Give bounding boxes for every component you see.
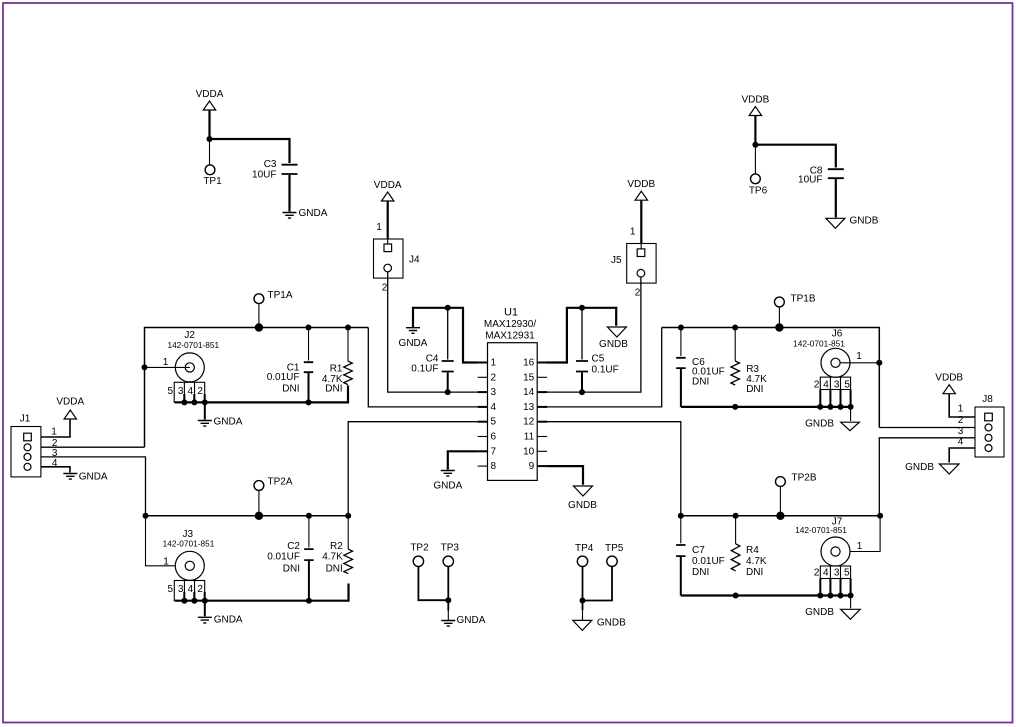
node J7 shield node d: [848, 593, 854, 599]
node J2 pin 1 tap: [142, 364, 148, 370]
connector J3 SMA body: [175, 551, 204, 580]
svg-text:4: 4: [188, 386, 194, 397]
node J7 shield node b: [827, 593, 833, 599]
wire J7 shield stubs: [820, 579, 850, 596]
svg-text:VDDA: VDDA: [56, 397, 84, 408]
wire TP2A stub: [258, 490, 260, 516]
wire GNDA rail to U1 pin 1: [413, 308, 478, 363]
node J2 shield node 2: [202, 399, 208, 405]
U1 pin 2 stub: [478, 376, 488, 378]
wire U1 pin 5 to channel A2 bus: [348, 422, 477, 516]
wire channel B bus: [662, 328, 880, 428]
ground GNDA (at J1 pin 4): [63, 471, 108, 482]
svg-text:GNDB: GNDB: [905, 462, 934, 473]
U1 pin 10 stub: [537, 450, 547, 452]
svg-text:0.01UF: 0.01UF: [692, 556, 725, 567]
svg-text:2: 2: [814, 567, 820, 578]
svg-text:J1: J1: [20, 414, 31, 425]
U1 pin 12 stub: [537, 421, 547, 423]
wire J1 pin 2 to channel A bus: [41, 446, 145, 448]
U1 pin 5 stub: [478, 421, 488, 423]
node J6 shield node d: [848, 404, 854, 410]
power symbol VDDA (J1 supply flag): [56, 397, 84, 419]
connector J5: [611, 244, 656, 299]
test point TP1B: [775, 293, 816, 307]
wire J5 pin 1 entry: [640, 244, 642, 250]
wire C2 bottom lead: [308, 561, 310, 601]
test point TP5: [605, 543, 624, 566]
node R3 bottom node: [732, 404, 738, 410]
wire C8 to GNDB: [835, 179, 837, 218]
svg-text:3: 3: [834, 380, 840, 391]
svg-text:2: 2: [491, 372, 497, 383]
svg-text:TP3: TP3: [441, 543, 460, 554]
svg-text:5: 5: [168, 584, 174, 595]
svg-text:7: 7: [491, 446, 497, 457]
wire channel B ground rail: [681, 406, 850, 408]
wire J8 pin 3 to channel B2 bus: [879, 438, 975, 516]
svg-text:10: 10: [523, 446, 535, 457]
svg-text:GNDA: GNDA: [433, 481, 462, 492]
svg-text:TP2A: TP2A: [268, 477, 293, 488]
resistor R2: [322, 541, 352, 575]
resistor R3: [731, 361, 767, 395]
U1 pin 4 stub: [478, 406, 488, 408]
node J8 pin3-J7 junction: [877, 513, 883, 519]
wire TP1 stub: [209, 139, 211, 165]
node C7 top node: [678, 513, 684, 519]
wire VDDB flag to node: [754, 116, 756, 145]
wire C6 top lead: [680, 328, 682, 357]
connector J8: [958, 404, 1004, 458]
svg-text:TP2: TP2: [410, 543, 429, 554]
node C5 top node: [579, 305, 585, 311]
power symbol VDDB (J5 supply flag): [627, 179, 655, 200]
ground GNDB (under J7): [805, 607, 860, 620]
svg-text:GNDA: GNDA: [79, 471, 108, 482]
ground GNDB (right of C5): [599, 327, 628, 350]
wire J1 pin 1 to VDDA: [41, 420, 70, 437]
wire VDDB flag to J5 pin 1: [640, 200, 642, 243]
svg-text:2: 2: [635, 288, 641, 299]
wire U1 pin 9 to GNDB: [547, 466, 583, 485]
svg-text:R4: R4: [746, 545, 759, 556]
svg-text:142-0701-851: 142-0701-851: [167, 340, 219, 350]
wire TP1B stub: [778, 307, 780, 328]
wire J6 shield stubs: [820, 390, 850, 407]
svg-text:TP1A: TP1A: [268, 290, 293, 301]
svg-text:1: 1: [856, 351, 862, 362]
wire C1 bottom lead: [308, 373, 310, 402]
wire J3 pin 1 riser: [146, 516, 190, 566]
connector J6 SMA body: [821, 348, 850, 377]
wire J8 pin 2 line: [879, 427, 975, 429]
resistor R4: [731, 544, 767, 578]
node TP2-TP3 junction: [445, 597, 451, 603]
svg-text:GNDB: GNDB: [805, 419, 834, 430]
node J2 shield node 3: [181, 399, 187, 405]
svg-text:0.01UF: 0.01UF: [267, 372, 300, 383]
node J6 pin 1 tap: [876, 360, 882, 366]
U1 pin 15 stub: [537, 376, 547, 378]
svg-text:4: 4: [823, 567, 829, 578]
svg-text:5: 5: [491, 417, 497, 428]
node C2 top node: [306, 513, 312, 519]
svg-text:13: 13: [523, 402, 535, 413]
svg-text:DNI: DNI: [692, 377, 709, 388]
svg-text:J5: J5: [611, 255, 622, 266]
svg-text:4.7K: 4.7K: [322, 551, 343, 562]
svg-text:DNI: DNI: [283, 564, 300, 575]
capacitor C7: [676, 545, 725, 578]
svg-text:16: 16: [523, 358, 535, 369]
svg-text:GNDB: GNDB: [850, 215, 879, 226]
wire R2 top lead: [347, 516, 349, 549]
svg-text:6: 6: [491, 432, 497, 443]
U1 pin 11 stub: [537, 436, 547, 438]
wire TP6 stub: [754, 145, 756, 174]
wire J2 pin 1 lead: [146, 366, 190, 368]
ground GNDB (under C8): [826, 215, 879, 228]
svg-text:142-0701-851: 142-0701-851: [795, 525, 847, 535]
connector J1: [11, 427, 58, 477]
node TP1A node: [255, 323, 263, 331]
ground GNDA (left of C4): [399, 328, 428, 349]
wire channel B2 bus: [681, 515, 880, 517]
wire channel B2 ground rail: [681, 594, 850, 596]
svg-text:TP1B: TP1B: [791, 293, 816, 304]
svg-text:GNDA: GNDA: [299, 208, 328, 219]
ground GNDB (under J6): [805, 419, 859, 431]
wire C4 bottom lead: [447, 373, 449, 393]
svg-text:5: 5: [168, 386, 174, 397]
wire J2 shield stubs: [184, 394, 204, 402]
wire TP3 ground stub: [447, 611, 449, 621]
svg-text:VDDA: VDDA: [374, 180, 402, 191]
svg-text:R1: R1: [330, 364, 343, 375]
node R4 top node: [733, 513, 739, 519]
node J1 pin3-J3 junction: [143, 513, 149, 519]
wire J4 pin 2 to U1 pin 3: [388, 272, 478, 392]
connector J7 SMA body: [821, 537, 850, 566]
wire J5 pin 2 to U1 pin 14: [547, 277, 641, 392]
node C6 top node: [678, 325, 684, 331]
node R1 top node: [345, 325, 351, 331]
svg-text:TP1: TP1: [203, 176, 222, 187]
test point TP2B: [776, 473, 817, 487]
wire C7 bottom lead: [680, 557, 682, 596]
node J7 shield node a: [817, 593, 823, 599]
node R2 top node: [345, 513, 351, 519]
svg-text:J4: J4: [409, 255, 420, 266]
connector J4: [374, 239, 421, 294]
svg-text:1: 1: [163, 557, 169, 568]
wire J7 pin 1 riser: [841, 516, 880, 552]
svg-text:GNDA: GNDA: [214, 417, 243, 428]
power symbol VDDB (J8 supply flag): [935, 373, 963, 394]
node J7 shield node c: [838, 593, 844, 599]
test point TP4: [575, 543, 594, 566]
svg-text:GNDB: GNDB: [597, 618, 626, 629]
svg-text:GNDA: GNDA: [457, 615, 486, 626]
wire channel A ground rail: [175, 386, 348, 403]
wire C1 top lead: [308, 328, 310, 361]
svg-text:DNI: DNI: [325, 384, 342, 395]
svg-text:VDDB: VDDB: [627, 179, 655, 190]
test point TP1A: [254, 290, 293, 304]
test point TP2A: [254, 477, 293, 491]
node TP2A node: [255, 512, 263, 520]
svg-text:U1: U1: [504, 307, 518, 319]
wire TP2B stub: [779, 486, 781, 516]
U1 pin 9 stub: [537, 465, 547, 467]
connector J2 shield pins J2 pins 5342: [168, 382, 205, 402]
node TP1B node: [775, 323, 783, 331]
svg-text:2: 2: [197, 386, 203, 397]
node C1 bottom node: [306, 399, 312, 405]
wire J1 pin 3 to channel A2 bus: [41, 457, 146, 516]
wire C4 top lead: [447, 308, 449, 360]
ground GNDB (at U1 pin 9): [568, 486, 597, 511]
svg-text:DNI: DNI: [326, 564, 343, 575]
svg-text:1: 1: [376, 222, 382, 233]
svg-text:DNI: DNI: [282, 384, 299, 395]
wire TP1A stub: [258, 303, 260, 327]
wire J4 pin 1 entry: [387, 239, 389, 244]
U1 pin 14 stub: [537, 391, 547, 393]
node C5 bottom node: [579, 389, 585, 395]
svg-text:1: 1: [630, 227, 636, 238]
svg-text:1: 1: [163, 357, 169, 368]
svg-text:MAX12931: MAX12931: [485, 330, 535, 341]
node J2 shield node 4: [191, 399, 197, 405]
node VDDB-TP6 junction: [752, 142, 758, 148]
svg-text:2: 2: [197, 584, 203, 595]
svg-text:9: 9: [529, 461, 535, 472]
wire U1 pin 16 to GNDB: [547, 308, 616, 363]
op-amp U1 MAX12930/MAX12931: [484, 307, 537, 481]
svg-text:TP5: TP5: [605, 543, 624, 554]
test point TP6: [749, 174, 768, 196]
wire C7 top lead: [680, 516, 682, 544]
svg-text:1: 1: [491, 358, 497, 369]
U1 pin 16 stub: [537, 362, 547, 364]
svg-text:2: 2: [958, 415, 964, 426]
svg-text:DNI: DNI: [692, 567, 709, 578]
node TP2B node: [776, 512, 784, 520]
U1 pin 6 stub: [478, 436, 488, 438]
svg-text:8: 8: [491, 461, 497, 472]
U1 pin 3 stub: [478, 391, 488, 393]
wire R4 top lead: [735, 516, 737, 544]
svg-text:C5: C5: [592, 354, 605, 365]
svg-text:GNDB: GNDB: [568, 500, 597, 511]
wire channel A input bus: [145, 328, 369, 448]
wire VDDA to C3: [210, 139, 290, 163]
wire TP3 to ground: [447, 567, 449, 611]
svg-text:1: 1: [51, 427, 57, 438]
ground GNDA (under J3): [198, 614, 243, 625]
capacitor C8: [798, 165, 844, 185]
ground GNDA (under J2): [198, 417, 243, 428]
ground GNDA (under TP2/TP3): [441, 615, 485, 626]
capacitor C5: [576, 354, 619, 376]
wire R3 top lead: [734, 328, 736, 362]
wire J2 ground drop: [204, 402, 206, 419]
node J3 shield node 3: [181, 598, 187, 604]
wire C5 bottom lead: [581, 373, 583, 393]
svg-text:GNDA: GNDA: [399, 338, 428, 349]
node VDDA-TP1 junction: [207, 136, 213, 142]
power symbol VDDA (top-left supply flag): [196, 89, 224, 110]
svg-text:4.7K: 4.7K: [746, 556, 767, 567]
wire J6 pin 1 lead: [840, 362, 878, 364]
wire channel A2 ground rail: [175, 584, 349, 601]
wire C2 top lead: [308, 516, 310, 548]
resistor R1: [322, 361, 352, 394]
svg-text:MAX12930/: MAX12930/: [484, 319, 536, 330]
svg-text:TP6: TP6: [749, 185, 768, 196]
svg-text:DNI: DNI: [746, 567, 763, 578]
wire J3 ground drop: [204, 601, 206, 617]
svg-text:142-0701-851: 142-0701-851: [163, 538, 215, 548]
wire channel A2 bus: [146, 515, 349, 517]
capacitor C3: [252, 159, 297, 181]
svg-text:14: 14: [523, 387, 535, 398]
svg-text:3: 3: [178, 386, 184, 397]
svg-text:TP4: TP4: [575, 543, 594, 554]
connector J2 SMA body: [175, 353, 204, 382]
ground GNDA (under C3): [283, 208, 328, 219]
svg-text:GNDB: GNDB: [805, 607, 834, 618]
capacitor C4: [411, 353, 453, 374]
wire U1 pin 7 to GNDA: [448, 451, 478, 469]
U1 pin 7 stub: [478, 450, 488, 452]
capacitor C2: [267, 541, 313, 575]
wire R1 top lead: [347, 328, 349, 362]
power symbol VDDA (J4 supply flag): [374, 180, 402, 201]
node C2 bottom node: [306, 598, 312, 604]
capacitor C6: [676, 357, 725, 388]
svg-text:10UF: 10UF: [252, 170, 276, 181]
U1 pin 1 stub: [478, 362, 488, 364]
node R3 top node: [732, 325, 738, 331]
wire C6 bottom lead: [680, 369, 682, 407]
connector J3 shield pins J3 pins 5342: [168, 581, 205, 601]
node R4 bottom node: [733, 593, 739, 599]
test point TP2: [410, 543, 429, 567]
capacitor C1: [267, 362, 313, 394]
svg-text:4: 4: [491, 402, 497, 413]
svg-text:DNI: DNI: [746, 384, 763, 395]
svg-text:C7: C7: [692, 545, 705, 556]
wire J7 ground stub: [850, 596, 852, 609]
svg-text:2: 2: [382, 283, 388, 294]
node J3 shield node 4: [191, 598, 197, 604]
node C4 bottom node: [445, 389, 451, 395]
ground GNDB (at J8 pin 4): [905, 462, 959, 474]
svg-text:C3: C3: [264, 159, 277, 170]
wire U1 pin 4 to channel A bus: [368, 328, 477, 407]
node J3 shield node 2: [202, 598, 208, 604]
svg-text:VDDB: VDDB: [935, 373, 963, 384]
svg-text:GNDB: GNDB: [599, 339, 628, 350]
wire VDDB flag to J8 pin 1: [949, 394, 975, 417]
wire J3 shield stubs: [184, 592, 204, 601]
svg-text:0.01UF: 0.01UF: [267, 551, 300, 562]
node C1 top node: [306, 325, 312, 331]
wire TP2 to ground: [418, 567, 448, 601]
wire TP5 to ground: [583, 567, 613, 601]
svg-text:142-0701-851: 142-0701-851: [793, 338, 845, 348]
node J6 shield node a: [817, 404, 823, 410]
U1 pin 13 stub: [537, 406, 547, 408]
node J6 shield node c: [838, 404, 844, 410]
wire TP4 ground stub: [582, 610, 584, 620]
svg-text:4: 4: [823, 380, 829, 391]
svg-text:VDDA: VDDA: [196, 89, 224, 100]
ground GNDB (under TP4/TP5): [573, 618, 626, 631]
svg-text:2: 2: [814, 380, 820, 391]
svg-text:0.1UF: 0.1UF: [411, 364, 438, 375]
power symbol VDDB (top-right supply flag): [742, 95, 770, 116]
svg-text:GNDA: GNDA: [214, 614, 243, 625]
svg-text:J8: J8: [982, 394, 993, 405]
svg-text:1: 1: [857, 541, 863, 552]
wire J1 pin 4 to GNDA: [41, 467, 70, 473]
svg-text:5: 5: [844, 567, 850, 578]
node C4 top node: [445, 305, 451, 311]
U1 pin 8 stub: [478, 465, 488, 467]
connector J6 shield pins J6 pins 2435: [814, 377, 851, 391]
svg-text:12: 12: [523, 417, 535, 428]
svg-text:10UF: 10UF: [798, 175, 822, 186]
wire C5 top lead: [581, 308, 583, 360]
wire J6 ground stub: [850, 407, 852, 421]
connector J7 shield pins J7 pins 2435: [814, 566, 851, 579]
wire U1 pin 12 to channel B2 bus: [547, 422, 681, 516]
test point TP1: [203, 165, 222, 187]
wire VDDA flag to node: [208, 110, 210, 139]
wire VDDB to C8: [755, 145, 835, 168]
wire C3 to GNDA: [288, 175, 290, 212]
svg-text:VDDB: VDDB: [742, 95, 770, 106]
node TP4-TP5 junction: [580, 598, 586, 604]
wire J8 pin 4 to GNDB: [949, 448, 975, 463]
svg-text:4: 4: [188, 584, 194, 595]
wire TP4 to ground: [582, 567, 584, 611]
svg-text:11: 11: [524, 432, 535, 443]
node J6 shield node b: [827, 404, 833, 410]
wire U1 pin 13 to channel B bus: [547, 328, 662, 407]
wire VDDA flag to J4 pin 1: [387, 201, 389, 239]
svg-text:TP2B: TP2B: [792, 473, 817, 484]
svg-text:3: 3: [178, 584, 184, 595]
svg-text:0.1UF: 0.1UF: [592, 365, 619, 376]
svg-text:5: 5: [844, 380, 850, 391]
svg-text:3: 3: [491, 387, 497, 398]
svg-text:1: 1: [958, 404, 964, 415]
svg-text:3: 3: [834, 567, 840, 578]
test point TP3: [441, 543, 460, 567]
svg-text:15: 15: [523, 372, 535, 383]
ground GNDA (at U1 pin 7): [433, 471, 462, 492]
